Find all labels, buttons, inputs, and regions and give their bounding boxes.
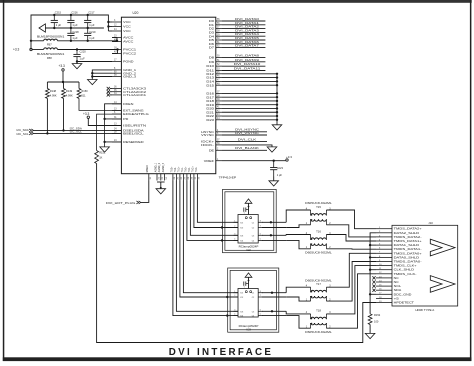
svg-text:PVCC2: PVCC2 bbox=[123, 52, 136, 56]
U20 left pin VCC bbox=[112, 25, 131, 29]
wire D17 bbox=[222, 96, 277, 98]
svg-text:30: 30 bbox=[150, 176, 152, 179]
wire AVCC link ext bbox=[116, 40, 118, 43]
svg-text:+3.3: +3.3 bbox=[59, 64, 66, 68]
svg-text:NC: NC bbox=[394, 276, 399, 280]
svg-text:TMDS_DATA0-: TMDS_DATA0- bbox=[394, 260, 422, 264]
U20 left pin DKEN bbox=[112, 102, 133, 106]
J10 pin 1 TMDS_DATA2+ bbox=[376, 227, 422, 231]
svg-text:6: 6 bbox=[260, 233, 261, 235]
svg-text:AGND_2: AGND_2 bbox=[158, 162, 161, 172]
svg-text:D7: D7 bbox=[209, 46, 215, 50]
U20 right pin D13 bbox=[206, 76, 222, 80]
svg-text:8: 8 bbox=[260, 220, 261, 222]
svg-text:AVCC: AVCC bbox=[123, 40, 133, 44]
wire DKEN strap bbox=[105, 104, 122, 119]
wire AVCC stub a bbox=[112, 37, 117, 39]
svg-text:1 µF: 1 µF bbox=[72, 36, 78, 40]
I2C_SDA connector chevron bbox=[29, 129, 33, 132]
U20 bottom pin AGND_2 bbox=[158, 162, 164, 180]
capacitor C219 1uF bbox=[84, 28, 91, 41]
svg-text:4.99K: 4.99K bbox=[50, 94, 57, 98]
svg-text:4: 4 bbox=[234, 239, 235, 241]
wire TX0+ to clamp bbox=[187, 181, 238, 241]
junction U22 shield row2 left bbox=[221, 226, 223, 228]
U20 right pin D8 bbox=[209, 56, 222, 60]
wire DVI_DATA0 bbox=[222, 20, 265, 22]
svg-text:2: 2 bbox=[234, 295, 235, 297]
svg-text:R150: R150 bbox=[81, 89, 88, 93]
wire CTL stub y94.9 bbox=[110, 94, 112, 96]
common-mode choke T16 D605UC8-9G2ML bbox=[305, 229, 332, 254]
svg-text:NC: NC bbox=[394, 280, 399, 284]
border frame right line bbox=[470, 0, 472, 361]
wire pullup rail bbox=[62, 71, 64, 82]
+3.3 connector circle bbox=[30, 48, 32, 50]
wire T16 pin2 to HDMI pin6 bbox=[326, 248, 376, 250]
U20 left pin GND_1 bbox=[112, 68, 137, 72]
svg-text:7: 7 bbox=[260, 295, 261, 297]
U20 right pin IDCK+ bbox=[201, 140, 222, 144]
svg-text:DVI_DATA11: DVI_DATA11 bbox=[234, 67, 261, 71]
U20 left pin GND_2 bbox=[112, 71, 137, 75]
wire PGND bbox=[77, 61, 112, 63]
wire shield to pin8 bbox=[370, 256, 376, 258]
common-mode choke T17 D605UC8-9G2ML bbox=[305, 279, 332, 301]
U20 right pin D9 bbox=[209, 60, 222, 64]
U20 right pin D20 bbox=[206, 107, 222, 111]
junction shield pin11 bbox=[369, 269, 371, 271]
svg-text:27: 27 bbox=[185, 176, 187, 179]
wire clamp out y292.7 bbox=[262, 292, 286, 294]
wire D20 bbox=[222, 107, 277, 109]
J10 pin 10 TMDS_CLK+ bbox=[376, 264, 417, 268]
U20 bottom pin TX0+ bbox=[185, 166, 190, 181]
svg-text:DATA1_SHLD: DATA1_SHLD bbox=[394, 243, 420, 247]
resistor bbox=[95, 151, 99, 164]
svg-text:+5: +5 bbox=[394, 296, 400, 300]
J10 pin 8 DATA0_SHLD bbox=[376, 255, 419, 259]
svg-text:TX0-: TX0- bbox=[189, 167, 191, 172]
wire R152 to gnd bbox=[369, 325, 371, 334]
svg-text:24: 24 bbox=[174, 176, 176, 179]
wire C223 to gnd bbox=[273, 177, 275, 181]
ground AGND bbox=[156, 189, 166, 194]
wire DVI_DATA8 bbox=[222, 56, 265, 58]
junction C219 bottom bbox=[87, 40, 89, 42]
no-connect CTL y94.9 bbox=[107, 93, 110, 96]
U23 pin row 3 bbox=[234, 309, 263, 313]
svg-text:BLM18PG600SN1: BLM18PG600SN1 bbox=[37, 34, 65, 38]
svg-text:D605UC8-9G2ML: D605UC8-9G2ML bbox=[305, 251, 332, 254]
svg-text:TMDS_CLK-: TMDS_CLK- bbox=[394, 272, 417, 276]
svg-text:TMDS_DATA0+: TMDS_DATA0+ bbox=[394, 251, 423, 255]
J10 pin 14 NC bbox=[376, 280, 399, 284]
U20 right pin VSYNC bbox=[201, 133, 222, 137]
U20 left pin EXT_SWNG bbox=[112, 109, 145, 113]
junction U23 shield row2 left bbox=[226, 296, 228, 298]
svg-text:C4: C4 bbox=[252, 240, 254, 242]
svg-text:C218: C218 bbox=[72, 30, 79, 34]
U20 right pin D22 bbox=[206, 114, 222, 118]
svg-text:AGND_1: AGND_1 bbox=[154, 162, 157, 172]
svg-text:1 µF: 1 µF bbox=[89, 36, 95, 40]
U20 bottom pin TXC+ bbox=[192, 166, 197, 181]
svg-text:U20: U20 bbox=[133, 11, 139, 15]
svg-text:T15: T15 bbox=[316, 205, 321, 209]
junction pullup feed bbox=[62, 81, 64, 83]
svg-text:HPDETECT: HPDETECT bbox=[394, 301, 415, 305]
svg-text:BLM18PG600SN1: BLM18PG600SN1 bbox=[37, 52, 65, 56]
shield box around U23 (inner) bbox=[230, 270, 276, 329]
resistor bbox=[46, 89, 50, 99]
wire T15 pin3 to HDMI pin1 bbox=[326, 210, 376, 229]
junction VREF/C223 bbox=[273, 160, 275, 162]
U23 pin row 2 bbox=[234, 295, 263, 299]
svg-text:C215: C215 bbox=[55, 10, 62, 14]
svg-text:C3: C3 bbox=[252, 311, 254, 313]
junction C220/PGND bbox=[76, 60, 78, 62]
svg-text:ISEL/RSTN: ISEL/RSTN bbox=[123, 124, 146, 128]
svg-text:1: 1 bbox=[234, 291, 235, 293]
resistor bbox=[368, 314, 372, 325]
svg-text:1 µF: 1 µF bbox=[56, 23, 62, 27]
resistor R150 511 bbox=[77, 82, 121, 110]
HDMI chevron glyph upper bbox=[430, 239, 455, 256]
svg-text:C1: C1 bbox=[252, 222, 254, 224]
J10 pin 4 TMDS_DATA1+ bbox=[376, 239, 422, 243]
U20 right pin D16 bbox=[206, 92, 222, 96]
U20 left pin CTL2A2CK2 bbox=[112, 90, 147, 94]
U20 right pin VREF bbox=[204, 159, 222, 163]
capacitor C218 1uF bbox=[67, 28, 74, 41]
wire DVI_DATA4 bbox=[222, 35, 265, 37]
wire U22 rowA to T15 pin4 bbox=[286, 210, 310, 222]
wire D22 bbox=[222, 115, 277, 117]
ferrite bead FB7 BLM18PG600SN1 bbox=[31, 34, 65, 46]
border frame bottom band bbox=[3, 357, 472, 361]
svg-text:D23: D23 bbox=[206, 118, 214, 122]
svg-text:1 µF: 1 µF bbox=[72, 23, 78, 27]
wire D16 bbox=[222, 92, 277, 94]
svg-text:HDMI TYPE A: HDMI TYPE A bbox=[415, 308, 434, 312]
wire RESERVED bbox=[105, 141, 122, 143]
svg-text:C220: C220 bbox=[80, 50, 87, 54]
ground data bus bbox=[272, 125, 282, 130]
svg-text:IO4: IO4 bbox=[240, 240, 243, 242]
wire DVI_HSYNC bbox=[222, 131, 267, 133]
wire VCC stub y31.0 bbox=[108, 30, 112, 32]
U20 left pin AVCC bbox=[112, 40, 133, 44]
junction C217 bottom bbox=[87, 27, 89, 29]
wire VREF bbox=[222, 160, 286, 162]
wire clamp out y297.0 bbox=[262, 296, 286, 298]
svg-text:IO1: IO1 bbox=[240, 293, 243, 295]
svg-text:26: 26 bbox=[181, 176, 183, 179]
svg-text:IDCK-: IDCK- bbox=[201, 143, 214, 147]
capacitor C220 body bbox=[73, 50, 80, 62]
svg-text:7: 7 bbox=[260, 226, 261, 228]
wire DVI_DATA5 bbox=[222, 39, 265, 41]
svg-text:1K: 1K bbox=[99, 156, 102, 160]
J10 pin 5 DATA1_SHLD bbox=[376, 243, 419, 247]
svg-text:DDC_GND: DDC_GND bbox=[394, 292, 412, 296]
wire clamp out y235.3 bbox=[262, 234, 286, 236]
svg-text:T17: T17 bbox=[316, 282, 321, 286]
wire DVI_DATA11 bbox=[222, 70, 265, 72]
junction C217 top bbox=[87, 14, 89, 16]
svg-text:D15: D15 bbox=[206, 83, 214, 87]
wire clamp out y222.3 bbox=[262, 221, 286, 223]
wire DVI_DATA1 bbox=[222, 24, 265, 26]
svg-text:VREF: VREF bbox=[204, 159, 214, 163]
junction D19 bbox=[276, 104, 278, 106]
svg-text:I2C_SCL: I2C_SCL bbox=[17, 132, 30, 136]
U20 right pin D12 bbox=[206, 72, 222, 76]
wire DVI_DATA10 bbox=[222, 65, 265, 67]
op-amp U20 TFP410-EP main IC body bbox=[121, 17, 215, 174]
svg-text:TX2+: TX2+ bbox=[171, 166, 173, 172]
I2C_SCL connector chevron bbox=[29, 132, 33, 135]
U20 right pin D7 bbox=[209, 46, 222, 50]
wire PGND drop bbox=[76, 62, 78, 64]
J10 pin 12 TMDS_CLK- bbox=[376, 272, 417, 276]
svg-text:TMDS_DATA1+: TMDS_DATA1+ bbox=[394, 239, 423, 243]
svg-text:TX1-: TX1- bbox=[182, 167, 184, 172]
U20 left pin PD bbox=[112, 117, 128, 121]
svg-text:DVI_CLK: DVI_CLK bbox=[238, 138, 257, 142]
junction C215 bottom bbox=[53, 27, 55, 29]
junction shield pin8 bbox=[369, 256, 371, 258]
svg-text:DVI_VSYNC: DVI_VSYNC bbox=[235, 131, 260, 135]
svg-text:3: 3 bbox=[234, 233, 235, 235]
svg-text:IO2: IO2 bbox=[240, 228, 243, 230]
svg-text:8: 8 bbox=[260, 291, 261, 293]
junction R149/SDA bbox=[62, 129, 64, 131]
wire U22 rowB to T15 pin1 bbox=[286, 225, 310, 228]
junction GND_2 bbox=[91, 72, 93, 74]
svg-text:IO4: IO4 bbox=[240, 316, 243, 318]
U20 right pin D11 bbox=[206, 69, 222, 73]
wire AVCC rail bbox=[58, 38, 118, 41]
wire TXC+ to clamp bbox=[194, 181, 238, 228]
wire DVI_VSYNC bbox=[222, 134, 267, 136]
svg-text:TMDS_CLK+: TMDS_CLK+ bbox=[394, 264, 418, 268]
U23 internal marks bbox=[245, 291, 247, 293]
J10 pin 2 DATA2_SHLD bbox=[376, 231, 419, 235]
U20 bottom pin TXC- bbox=[196, 167, 201, 181]
capacitor C220 1uF bbox=[76, 48, 78, 50]
wire U23 rowA to T17 pin4 bbox=[286, 287, 310, 293]
J10 pin 6 TMDS_DATA1- bbox=[376, 247, 422, 251]
+3.3 connector circle pullups bbox=[62, 69, 64, 71]
wire GND_3 bbox=[92, 76, 112, 78]
ferrite bead FB8 BLM18PG600SN1 bbox=[32, 48, 65, 60]
U20 bottom pin MSEN bbox=[147, 165, 152, 180]
wire TX0- to clamp bbox=[190, 181, 238, 236]
supply stem U23 bbox=[248, 277, 250, 288]
U20 right pin D23 bbox=[206, 118, 222, 122]
junction U22 shield row4 left bbox=[221, 239, 223, 241]
svg-text:GND_3: GND_3 bbox=[123, 75, 136, 79]
svg-text:DATA0_SHLD: DATA0_SHLD bbox=[394, 255, 420, 259]
junction U22 shield row3 right bbox=[270, 234, 272, 236]
svg-text:TMDS_DATA2-: TMDS_DATA2- bbox=[394, 235, 422, 239]
junction D21 bbox=[276, 111, 278, 113]
ground R152 bbox=[365, 333, 375, 338]
wire DVI_DATA6 bbox=[222, 43, 265, 45]
wire D21 bbox=[222, 111, 277, 113]
svg-text:100: 100 bbox=[374, 319, 379, 323]
border frame left line bbox=[3, 0, 5, 361]
svg-text:DVI_BLANK: DVI_BLANK bbox=[235, 146, 259, 150]
svg-text:1 µF: 1 µF bbox=[89, 23, 95, 27]
wire PVCC rail bbox=[58, 50, 118, 54]
J10 pin 18 +5 bbox=[376, 296, 400, 300]
shield box around U22 (outer) bbox=[223, 189, 277, 252]
U20 right pin D6 bbox=[209, 42, 222, 46]
svg-text:VCC: VCC bbox=[123, 25, 131, 29]
svg-text:5: 5 bbox=[244, 213, 245, 215]
svg-text:CTL1A1CK1: CTL1A1CK1 bbox=[123, 93, 146, 97]
junction C216 bottom bbox=[70, 27, 72, 29]
U20 right pin D21 bbox=[206, 110, 222, 114]
svg-text:TX0+: TX0+ bbox=[185, 166, 187, 172]
wire clamp out y315.6 bbox=[262, 315, 286, 317]
shield box around U22 (inner) bbox=[225, 192, 274, 251]
svg-text:D605UC8-9G2ML: D605UC8-9G2ML bbox=[305, 202, 332, 205]
wire D12-D23 ground bus bbox=[276, 74, 278, 125]
ground C223 bbox=[269, 181, 279, 186]
transistor-array U22 RClamp0524P body bbox=[238, 215, 258, 244]
svg-text:DVI_DATA7: DVI_DATA7 bbox=[235, 44, 259, 48]
wire CTL stub y91.7 bbox=[110, 91, 112, 93]
svg-text:FB8: FB8 bbox=[47, 56, 52, 60]
U20 left pin AVCC bbox=[112, 36, 133, 40]
junction U23 vcc bbox=[248, 280, 250, 282]
power arrow U22 bbox=[245, 199, 252, 203]
U22 pin row 1 bbox=[234, 220, 263, 224]
junction RESERVED bbox=[103, 141, 105, 143]
wire D19 bbox=[222, 104, 277, 106]
svg-text:VCC: VCC bbox=[123, 29, 131, 33]
wire GND_2 bbox=[92, 72, 112, 74]
capacitor C216 1uF bbox=[67, 15, 74, 28]
svg-text:22: 22 bbox=[162, 176, 164, 179]
wire D14 bbox=[222, 80, 277, 82]
wire AGND drop bbox=[160, 182, 162, 189]
U22 pin row 3 bbox=[234, 233, 263, 237]
junction U23 shield row4 left bbox=[226, 314, 228, 316]
svg-text:DKEN: DKEN bbox=[123, 102, 133, 106]
supply stem U22 bbox=[248, 203, 250, 214]
U20 right pin HSYNC bbox=[201, 130, 222, 134]
border frame top band bbox=[0, 0, 472, 3]
junction U23 shield row1 right bbox=[271, 292, 273, 294]
junction PD/DKEN strap bbox=[103, 118, 105, 120]
J10 pin 16 SDA bbox=[376, 288, 401, 292]
J10 pin 17 DDC_GND bbox=[376, 292, 411, 296]
U20 right pin DE bbox=[209, 148, 222, 152]
svg-text:32: 32 bbox=[195, 176, 197, 179]
svg-text:C4: C4 bbox=[252, 316, 254, 318]
wire VCC stub y22.0 bbox=[108, 21, 112, 23]
svg-text:DVI_HOT_PLUG: DVI_HOT_PLUG bbox=[106, 201, 136, 205]
junction U23 shield row3 right bbox=[271, 310, 273, 312]
J10 pin 9 TMDS_DATA0- bbox=[376, 260, 422, 264]
resistor bbox=[62, 89, 66, 99]
svg-text:SDA: SDA bbox=[394, 288, 402, 292]
ground rail (mid) with net arrow bbox=[45, 27, 104, 29]
junction D23 bbox=[276, 119, 278, 121]
junction C216 top bbox=[70, 14, 72, 16]
junction VCC link bbox=[107, 25, 109, 27]
U20 left pin VCC bbox=[112, 20, 131, 24]
wire D12 bbox=[222, 73, 277, 75]
wire shield bus bbox=[370, 233, 376, 314]
svg-text:TMDS_DATA2+: TMDS_DATA2+ bbox=[394, 227, 423, 231]
svg-text:21: 21 bbox=[158, 176, 160, 179]
wire TX1+ to clamp bbox=[180, 181, 238, 298]
svg-text:TX1+: TX1+ bbox=[178, 166, 180, 172]
svg-text:2: 2 bbox=[234, 226, 235, 228]
svg-text:+3.3: +3.3 bbox=[83, 112, 90, 116]
junction D17 bbox=[276, 96, 278, 98]
wire U22 rowC to T16 pin4 bbox=[286, 234, 310, 237]
svg-text:3: 3 bbox=[234, 309, 235, 311]
U20 bottom pin TX1+ bbox=[178, 166, 183, 181]
wire DVI_DATA9 bbox=[222, 61, 265, 63]
U20 right pin D2 bbox=[209, 27, 222, 31]
wire shield to pin5 bbox=[370, 244, 376, 246]
junction FB7 tap bbox=[30, 40, 32, 42]
svg-text:C219: C219 bbox=[89, 30, 96, 34]
svg-text:TXC-: TXC- bbox=[196, 167, 198, 173]
U23 pin row 4 bbox=[234, 314, 263, 318]
svg-text:IO3: IO3 bbox=[240, 235, 243, 237]
svg-text:IO2: IO2 bbox=[240, 297, 243, 299]
svg-text:D605UC8-9G2ML: D605UC8-9G2ML bbox=[305, 279, 332, 282]
wire AGND bracket bbox=[157, 181, 165, 183]
wire D18 bbox=[222, 100, 277, 102]
svg-text:IO1: IO1 bbox=[240, 222, 243, 224]
wire AVCC stub b bbox=[112, 41, 117, 43]
svg-text:4.99K: 4.99K bbox=[66, 94, 73, 98]
wire D15 bbox=[222, 84, 277, 86]
wire TX2- to clamp bbox=[176, 181, 238, 312]
U20 bottom pin TX2- bbox=[175, 167, 180, 181]
junction GND_3 bbox=[91, 75, 93, 77]
U20 right pin D4 bbox=[209, 34, 222, 38]
wire TX1- to clamp bbox=[183, 181, 238, 293]
wire DVI_BLANK bbox=[222, 149, 267, 151]
svg-text:C223: C223 bbox=[277, 166, 284, 170]
svg-text:C2: C2 bbox=[252, 228, 254, 230]
svg-text:R152: R152 bbox=[374, 313, 381, 317]
U20 left pin RESERVED bbox=[112, 140, 144, 144]
svg-text:+3.3: +3.3 bbox=[286, 155, 292, 159]
U22 internal marks bbox=[245, 217, 247, 219]
wire R151 to bottom rail bbox=[97, 164, 376, 343]
junction AVCC link bbox=[116, 40, 118, 42]
wire DVI_DATA3 bbox=[222, 31, 265, 33]
svg-text:VSYNC: VSYNC bbox=[201, 133, 214, 137]
wire TX2+ to clamp bbox=[173, 181, 238, 316]
svg-text:DVI INTERFACE: DVI INTERFACE bbox=[169, 347, 273, 358]
svg-text:5: 5 bbox=[244, 287, 245, 289]
HDMI chevron glyph lower bbox=[430, 276, 455, 293]
junction U22 vcc bbox=[248, 206, 250, 208]
